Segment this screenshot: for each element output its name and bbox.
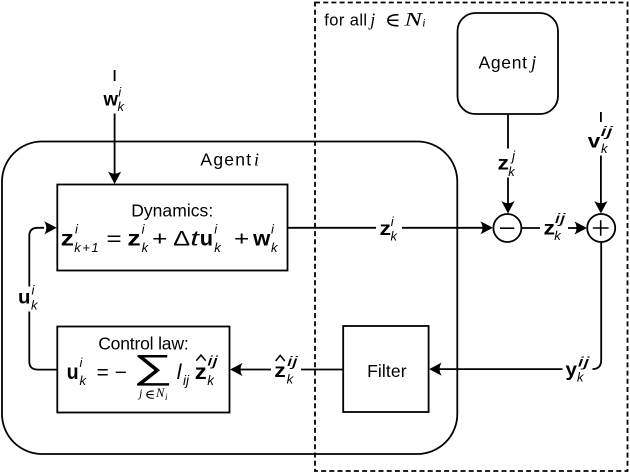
svg-text:ij: ij — [207, 353, 219, 369]
svg-text:y: y — [566, 360, 578, 381]
formula: u_k^i = - sum_{j in N_i} l_ij zhat_k^ij — [67, 348, 220, 402]
svg-text:Agent: Agent — [200, 150, 251, 170]
label: zhat_k^ij — [274, 353, 299, 387]
svg-text:∑: ∑ — [133, 348, 173, 386]
label: for all j ∈ N_i — [324, 10, 425, 31]
svg-text:i: i — [422, 16, 425, 30]
svg-text:z: z — [61, 228, 74, 251]
svg-text:u: u — [67, 361, 79, 384]
svg-text:z: z — [274, 361, 286, 382]
svg-text:w: w — [103, 90, 119, 111]
label: Agent i — [200, 150, 259, 170]
wire: y_k^ij from plus down and left into Filter — [429, 242, 601, 383]
svg-text:v: v — [588, 132, 601, 153]
svg-text:ij: ij — [183, 373, 190, 388]
svg-text:ij: ij — [601, 123, 615, 139]
svg-text:j: j — [368, 10, 375, 30]
svg-text:w: w — [252, 228, 271, 251]
wire: z_k^i from Dynamics to minus — [288, 215, 493, 241]
svg-text:Δ: Δ — [173, 228, 190, 251]
Filter box — [343, 326, 428, 412]
svg-text:ij: ij — [578, 354, 591, 370]
svg-text:ij: ij — [287, 353, 299, 369]
Dynamics box — [57, 185, 287, 271]
svg-text:u: u — [200, 228, 213, 251]
Agent i rounded box — [2, 142, 457, 455]
Control law box — [57, 327, 229, 413]
label: z_k^i — [380, 214, 399, 244]
svg-text:−: − — [115, 362, 127, 384]
svg-text:z: z — [127, 228, 140, 251]
label: v_k^ij — [588, 123, 614, 156]
svg-text:N: N — [155, 386, 165, 400]
wire: w arrow into Dynamics — [108, 114, 121, 185]
svg-text:z: z — [544, 219, 556, 240]
label: Agent j — [479, 52, 537, 73]
wire: v arrow into plus — [594, 156, 607, 214]
wire: zhat_k^ij from Filter to Control law — [230, 352, 343, 385]
wire: w input tick — [114, 70, 116, 81]
svg-text:z: z — [195, 361, 207, 384]
svg-text:+: + — [234, 229, 249, 251]
label: u_k^i — [18, 283, 39, 313]
svg-text:=: = — [106, 229, 121, 251]
Agent j rounded box — [458, 13, 559, 114]
minus junction circle — [493, 214, 521, 242]
label: w_k^i — [103, 85, 126, 115]
wire: z_k^j from Agent j to minus — [494, 114, 520, 214]
svg-text:=: = — [97, 362, 109, 384]
dashed region: for all j in N_i — [315, 3, 628, 472]
svg-text:z: z — [380, 219, 392, 240]
svg-text:Filter: Filter — [367, 361, 407, 381]
svg-text:Dynamics:: Dynamics: — [131, 201, 213, 221]
label: y_k^ij — [566, 354, 591, 385]
formula: z_k+1^i = z_k^i + Delta t u_k^i + w_k^i — [61, 222, 279, 256]
wire: v input tick — [600, 112, 602, 122]
svg-text:i: i — [254, 150, 259, 170]
label: z_k^ij — [544, 210, 567, 243]
svg-text:Agent: Agent — [479, 52, 528, 72]
svg-text:ij: ij — [555, 210, 567, 226]
svg-text:u: u — [18, 287, 31, 308]
svg-text:z: z — [498, 154, 510, 175]
svg-text:+: + — [152, 229, 167, 251]
svg-text:k+1: k+1 — [74, 240, 98, 255]
plus junction circle — [587, 214, 615, 242]
wire: u_k^i feedback from Control law to Dynamics — [13, 221, 57, 369]
svg-text:for all: for all — [324, 12, 367, 30]
label: z_k^j — [498, 149, 517, 180]
svg-text:N: N — [403, 10, 424, 31]
wire: z_k^ij from minus to plus — [521, 212, 587, 241]
